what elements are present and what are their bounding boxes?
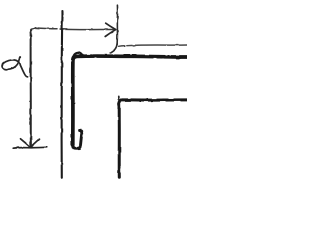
dimension line: rounded top-left corner — [30, 28, 35, 34]
flashing profile: corner overshoot bump — [74, 53, 82, 56]
second profile: corner overshoot nub — [117, 96, 119, 99]
extension line: bottom tail curl — [110, 44, 117, 53]
second profile: right-angle corner (vertical leg and horizontal edge) — [119, 100, 187, 177]
roof line: thin horizontal at right — [119, 45, 187, 46]
arrowhead: right, at extension line — [105, 23, 115, 36]
flashing profile: thick top edge with corner and vertical leg — [73, 56, 187, 145]
dimension line: top horizontal run (left piece) — [35, 27, 57, 30]
label ℓ (handwritten, rotated loop) — [2, 57, 28, 77]
arrowhead: right, tip blob — [115, 29, 117, 31]
dimension line: left vertical run — [30, 33, 32, 146]
arrowhead: down, at baseline — [21, 139, 40, 147]
wall line: long thin vertical crossing the dimension line — [61, 11, 64, 178]
flashing profile: bottom hem (u-fold) — [73, 131, 82, 149]
baseline (reference surface under down arrow) — [13, 146, 47, 149]
dimension line: top horizontal run (right piece) — [61, 28, 115, 31]
extension line: right vertical — [116, 5, 118, 44]
